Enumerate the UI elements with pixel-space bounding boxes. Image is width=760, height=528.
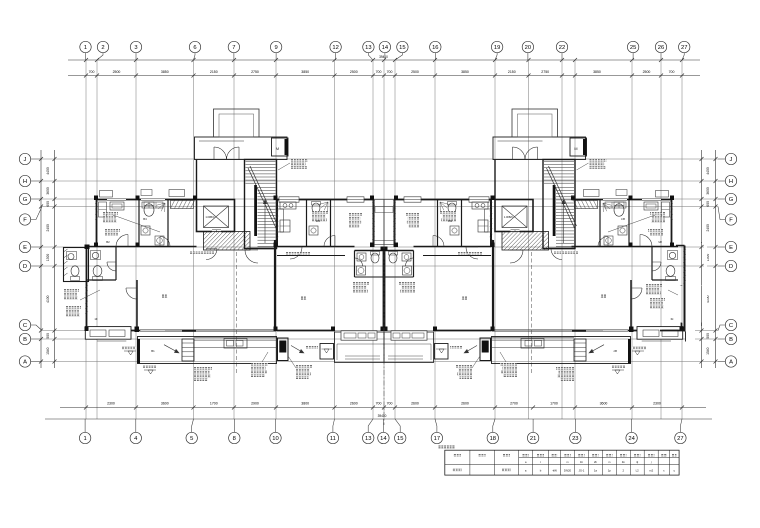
- svg-text:700: 700: [376, 70, 382, 74]
- svg-text:G: G: [729, 197, 734, 203]
- svg-text:700: 700: [387, 401, 393, 405]
- svg-text:2300: 2300: [107, 401, 115, 405]
- grid bubble 3 top: [130, 41, 141, 60]
- svg-text:2750: 2750: [251, 70, 259, 74]
- grid bubble 15 bottom: [395, 419, 406, 444]
- svg-text:23: 23: [572, 436, 578, 442]
- svg-text:H: H: [23, 179, 27, 185]
- grid bubble 12 top: [330, 41, 341, 60]
- svg-text:700: 700: [376, 401, 382, 405]
- central axis dash-dot line: [383, 244, 385, 425]
- grid bubble 14 top: [379, 41, 390, 60]
- svg-text:2400: 2400: [706, 224, 710, 232]
- grid bubble G left: [19, 193, 42, 204]
- grid bubble 1 bottom: [79, 419, 90, 444]
- svg-text:3850: 3850: [593, 70, 601, 74]
- svg-text:G: G: [23, 197, 28, 203]
- svg-text:600: 600: [706, 201, 710, 207]
- grid bubble C right: [718, 319, 737, 330]
- grid bubble 10 bottom: [270, 419, 281, 444]
- grid bubble 13 top: [363, 41, 374, 60]
- bottom dimension lines: [45, 406, 712, 420]
- grid bubble A right: [718, 356, 737, 367]
- svg-text:3850: 3850: [461, 70, 469, 74]
- grid bubble B left: [19, 333, 42, 344]
- svg-text:14: 14: [382, 45, 389, 51]
- svg-text:6: 6: [193, 45, 196, 51]
- svg-text:J: J: [24, 157, 27, 163]
- svg-text:21: 21: [530, 436, 536, 442]
- right half of building (mirrored units): [384, 190, 705, 382]
- svg-text:1a: 1a: [594, 469, 598, 473]
- svg-text:20: 20: [525, 45, 531, 51]
- grid bubble 17 bottom: [431, 419, 442, 444]
- grid bubble F left: [19, 207, 42, 226]
- svg-text:B: B: [729, 337, 733, 343]
- svg-text:1540: 1540: [46, 347, 50, 355]
- svg-text:19: 19: [494, 45, 500, 51]
- svg-text:25: 25: [630, 45, 636, 51]
- svg-text:E: E: [729, 245, 733, 251]
- svg-text:2600: 2600: [461, 401, 469, 405]
- top dimension text 39410: [379, 55, 388, 59]
- svg-text:1: 1: [83, 436, 86, 442]
- svg-text:10: 10: [272, 436, 278, 442]
- svg-text:5: 5: [190, 436, 193, 442]
- bottom overall dimension text 39410: [378, 414, 387, 418]
- svg-text:3600: 3600: [46, 187, 50, 195]
- svg-text:1700: 1700: [210, 401, 218, 405]
- svg-text:12: 12: [332, 45, 338, 51]
- svg-text:D: D: [729, 264, 733, 270]
- right-end wall correction: [646, 242, 707, 344]
- svg-text:27: 27: [681, 45, 687, 51]
- svg-text:13: 13: [365, 45, 371, 51]
- grid bubble D left: [19, 260, 42, 271]
- svg-text:15: 15: [397, 436, 403, 442]
- svg-text:1700: 1700: [550, 401, 558, 405]
- grid bubble 15 top: [395, 41, 408, 60]
- grid bubble 6 top: [189, 41, 200, 60]
- bottom chain dimension texts: [107, 401, 661, 405]
- top chain dimension texts: [89, 70, 675, 74]
- svg-text:17: 17: [434, 436, 440, 442]
- grid bubble D right: [718, 260, 737, 271]
- grid bubble 20 top: [522, 41, 533, 60]
- svg-text:27: 27: [677, 436, 683, 442]
- grid bubble 26 top: [655, 41, 666, 60]
- svg-text:9: 9: [274, 45, 277, 51]
- grid bubble 18 bottom: [487, 419, 498, 444]
- svg-text:39410: 39410: [378, 414, 387, 418]
- svg-text:3850: 3850: [161, 70, 169, 74]
- grid bubble 27 bottom: [675, 419, 686, 444]
- stair core 2 (translated copy): [487, 109, 607, 251]
- svg-text:16: 16: [432, 45, 438, 51]
- svg-text:11: 11: [330, 436, 336, 442]
- svg-text:1: 1: [84, 45, 87, 51]
- svg-text:700: 700: [89, 70, 95, 74]
- svg-text:C: C: [729, 323, 733, 329]
- svg-text:2150: 2150: [210, 70, 218, 74]
- svg-text:8: 8: [233, 436, 236, 442]
- svg-text:F: F: [729, 218, 733, 224]
- grid bubble 9 top: [270, 41, 281, 60]
- grid bubble B right: [718, 333, 737, 344]
- grid bubble 2 top: [97, 41, 109, 60]
- top dimension lines: [68, 58, 700, 78]
- svg-text:600: 600: [46, 201, 50, 207]
- svg-text:3: 3: [134, 45, 137, 51]
- grid bubble J right: [718, 153, 737, 164]
- svg-text:A: A: [23, 360, 27, 366]
- svg-text:1300: 1300: [46, 254, 50, 262]
- svg-text:2150: 2150: [508, 70, 516, 74]
- svg-text:2600: 2600: [411, 401, 419, 405]
- grid bubble E right: [718, 241, 737, 252]
- grid bubble 24 bottom: [626, 419, 637, 444]
- svg-text:500: 500: [46, 333, 50, 339]
- grid bubble 19 top: [491, 41, 502, 60]
- grid bubble 25 top: [627, 41, 638, 60]
- svg-text:2: 2: [101, 45, 104, 51]
- svg-text:26: 26: [658, 45, 664, 51]
- svg-text:C: C: [23, 323, 27, 329]
- grid bubble 16 top: [430, 41, 441, 60]
- svg-text:1540: 1540: [706, 347, 710, 355]
- grid bubble 14 bottom: [378, 419, 389, 444]
- svg-text:m2: m2: [649, 469, 653, 473]
- grid bubble J left: [19, 153, 42, 164]
- svg-text:m: m: [608, 461, 610, 464]
- svg-text:13: 13: [365, 436, 371, 442]
- svg-text:2300: 2300: [653, 401, 661, 405]
- svg-text:2750: 2750: [541, 70, 549, 74]
- svg-text:2700: 2700: [510, 401, 518, 405]
- grid bubble 23 bottom: [570, 419, 581, 444]
- grid bubble H left: [19, 175, 42, 186]
- grid bubble E left: [19, 241, 42, 252]
- svg-text:H: H: [729, 179, 733, 185]
- svg-text:3600: 3600: [706, 187, 710, 195]
- svg-text:4100: 4100: [46, 295, 50, 303]
- legend table: [445, 450, 679, 475]
- svg-text:1p: 1p: [608, 469, 612, 473]
- svg-text:39410: 39410: [379, 55, 388, 59]
- svg-text:4400: 4400: [46, 167, 50, 175]
- svg-text:D: D: [23, 264, 27, 270]
- horizontal grid lines: [42, 159, 718, 362]
- svg-text:DN20: DN20: [564, 469, 572, 473]
- svg-text:J: J: [730, 157, 733, 163]
- svg-text:24: 24: [628, 436, 635, 442]
- svg-text:3800: 3800: [301, 401, 309, 405]
- grid bubble 13 bottom: [363, 419, 374, 444]
- grid bubble C left: [19, 319, 42, 330]
- grid bubble 11 bottom: [327, 419, 338, 444]
- grid bubble G right: [718, 193, 737, 204]
- svg-text:700: 700: [669, 70, 675, 74]
- svg-text:15: 15: [399, 45, 405, 51]
- grid bubble A left: [19, 356, 42, 367]
- svg-text:22: 22: [559, 45, 565, 51]
- svg-text:14: 14: [380, 436, 387, 442]
- svg-text:3600: 3600: [161, 401, 169, 405]
- svg-text:F: F: [23, 218, 27, 224]
- svg-text:3850: 3850: [301, 70, 309, 74]
- grid bubble F right: [718, 207, 737, 226]
- svg-text:B: B: [23, 337, 27, 343]
- svg-text:L2: L2: [636, 469, 640, 473]
- light well AC platform: [375, 207, 393, 213]
- grid bubble 27 top: [679, 41, 690, 60]
- svg-text:2500: 2500: [643, 70, 651, 74]
- grid bubble 5 bottom: [186, 419, 197, 444]
- svg-text:7: 7: [232, 45, 235, 51]
- svg-text:2500: 2500: [113, 70, 121, 74]
- left dimension lines: [39, 150, 57, 368]
- grid bubble 1 top: [80, 41, 91, 60]
- legend table title: [439, 445, 455, 448]
- left half units: [64, 190, 385, 382]
- svg-text:500: 500: [706, 333, 710, 339]
- svg-text:JS-1: JS-1: [579, 469, 585, 473]
- svg-text:2500: 2500: [411, 70, 419, 74]
- grid bubble 7 top: [228, 41, 239, 60]
- grid bubble 22 top: [556, 41, 567, 60]
- svg-text:2500: 2500: [350, 70, 358, 74]
- svg-text:A: A: [729, 360, 733, 366]
- svg-text:2400: 2400: [46, 224, 50, 232]
- right dimension lines: [700, 150, 718, 368]
- svg-text:m: m: [566, 461, 568, 464]
- svg-text:-kW: -kW: [552, 469, 557, 473]
- grid bubble 8 bottom: [229, 419, 240, 444]
- svg-text:2900: 2900: [251, 401, 259, 405]
- grid bubble 21 bottom: [527, 419, 538, 444]
- svg-text:2600: 2600: [350, 401, 358, 405]
- svg-text:4400: 4400: [706, 167, 710, 175]
- svg-text:E: E: [23, 245, 27, 251]
- svg-text:700: 700: [387, 70, 393, 74]
- svg-text:18: 18: [490, 436, 496, 442]
- vertical grid lines: [86, 60, 682, 419]
- grid bubble H right: [718, 175, 737, 186]
- grid bubble 4 bottom: [130, 419, 141, 444]
- svg-text:3600: 3600: [600, 401, 608, 405]
- stair core 1: [189, 109, 309, 251]
